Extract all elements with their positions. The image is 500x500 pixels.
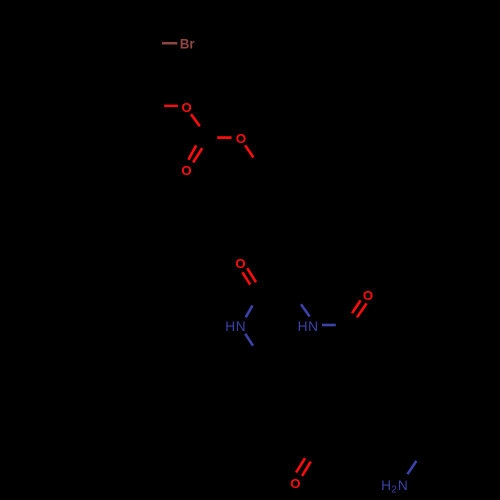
double bond C7=O6 line a (half near O6) xyxy=(296,458,305,472)
svg-text:O: O xyxy=(363,288,373,303)
double bond C5=O4 line a (half near O4) xyxy=(242,272,250,284)
bond ArC-O1 (half near O1) xyxy=(164,105,178,107)
bond O1-C(carbonate) half near O1 xyxy=(191,114,200,126)
svg-text:O: O xyxy=(290,476,300,491)
svg-text:N: N xyxy=(398,478,408,493)
bond CH2-Br (half near Br) xyxy=(162,42,177,45)
double bond C5=O4 line b (half near O4) xyxy=(247,268,256,282)
double bond C=O3 line a (half near O3) xyxy=(188,145,196,159)
bond C(carbonate)-O2 (half near O2) xyxy=(217,136,231,139)
svg-text:HN: HN xyxy=(298,319,319,334)
double bond C=O3 line b (half near O3) xyxy=(193,148,202,162)
bond C5-N1 (half near N1) xyxy=(246,306,253,318)
double bond C6=O5 line a (half near O5) xyxy=(352,300,361,313)
svg-text:O: O xyxy=(236,131,246,146)
svg-text:HN: HN xyxy=(225,319,246,334)
svg-text:H: H xyxy=(381,478,391,493)
bond N1-ArC (half near N1) xyxy=(245,334,253,346)
bond N3-ArC (half near N3) xyxy=(408,461,417,474)
svg-text:2: 2 xyxy=(391,484,397,495)
svg-text:Br: Br xyxy=(180,36,196,51)
svg-text:O: O xyxy=(235,256,245,271)
bond O2-CH2 chain (half near O2) xyxy=(245,145,253,157)
svg-text:O: O xyxy=(181,100,191,115)
double bond C6=O5 line b (half near O5) xyxy=(357,303,367,317)
bond N2-C6 (half near N2) xyxy=(322,324,336,327)
bond CH-N2 (half near N2) xyxy=(301,304,310,316)
double bond C7=O6 line b (half near O6) xyxy=(302,462,311,476)
svg-text:O: O xyxy=(181,163,191,178)
